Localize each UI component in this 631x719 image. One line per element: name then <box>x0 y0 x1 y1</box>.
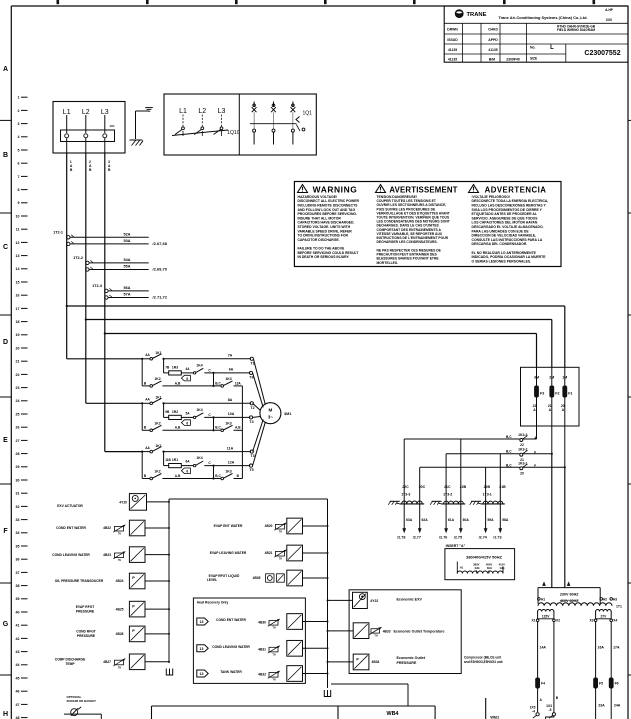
sensor 4B27 comp discharge temp <box>55 654 169 670</box>
motor leads <box>253 359 266 466</box>
svg-text:TANK WATER: TANK WATER <box>220 670 242 674</box>
company name text <box>498 15 587 20</box>
svg-text:1K3: 1K3 <box>225 470 231 474</box>
svg-text:4: 4 <box>18 135 20 139</box>
svg-text:L1: L1 <box>63 109 71 116</box>
starter row phase1 (1K1/1R3/1K4/1K2/1K3) <box>141 351 255 387</box>
svg-text:24: 24 <box>16 399 20 403</box>
svg-text:Economic Outlet: Economic Outlet <box>397 656 426 660</box>
svg-text:32: 32 <box>16 505 20 509</box>
title block grid lines <box>444 23 628 62</box>
svg-text:TH: TH <box>272 655 275 657</box>
svg-text:2: 2 <box>18 109 20 113</box>
svg-text:1K4: 1K4 <box>196 364 202 368</box>
svg-text:L2: L2 <box>198 108 206 115</box>
svg-text:13: 13 <box>200 647 204 651</box>
svg-text:16: 16 <box>16 294 20 298</box>
svg-text:1R1: 1R1 <box>172 458 178 462</box>
fuse F3 <box>534 386 544 398</box>
svg-text:H3: H3 <box>613 597 617 601</box>
title block corner small texts <box>605 8 614 22</box>
svg-text:1K1: 1K1 <box>155 351 161 355</box>
terminal T5 <box>249 464 253 472</box>
svg-text:INSERT "A": INSERT "A" <box>446 544 466 548</box>
svg-text:1X1: 1X1 <box>109 124 115 128</box>
svg-text:COND ENT WATER: COND ENT WATER <box>56 526 86 530</box>
svg-text:F: F <box>3 528 8 535</box>
svg-text:/2.76: /2.76 <box>439 535 447 539</box>
svg-text:TH: TH <box>272 680 275 682</box>
svg-text:4HG: 4HG <box>474 567 479 570</box>
svg-text:Trane Air-Conditioning Systems: Trane Air-Conditioning Systems (China) C… <box>498 15 587 20</box>
svg-text:11B: 11B <box>165 458 171 462</box>
svg-text:M: M <box>268 408 272 413</box>
note tag 6 <box>181 468 190 474</box>
svg-text:1K1: 1K1 <box>155 396 161 400</box>
wire A,B <box>162 381 221 387</box>
CT 1T3-1 <box>470 454 509 540</box>
wire 10A to terminal <box>204 412 250 418</box>
svg-text:PRESSURE: PRESSURE <box>397 661 417 665</box>
svg-text:8: 8 <box>18 188 20 192</box>
1Q10 switch cell <box>172 108 240 136</box>
svg-text:6: 6 <box>186 377 188 381</box>
svg-text:1K4: 1K4 <box>196 408 202 412</box>
terminal T4 <box>249 416 253 424</box>
svg-text:LEVEL: LEVEL <box>207 578 218 582</box>
svg-text:35: 35 <box>16 544 20 548</box>
svg-text:13: 13 <box>200 672 204 676</box>
row letter C <box>3 244 8 251</box>
svg-text:4A: 4A <box>185 367 190 371</box>
fuse lower labels <box>533 404 565 412</box>
junction node <box>141 451 143 479</box>
sensor 4B05 evap rfgt liquid level <box>207 570 328 586</box>
svg-text:57A: 57A <box>124 293 131 297</box>
svg-text:B,C: B,C <box>506 463 512 467</box>
svg-text:EXV ACTUATOR: EXV ACTUATOR <box>57 504 83 508</box>
svg-text:3: 3 <box>18 122 20 126</box>
svg-text:TRANE: TRANE <box>467 12 487 18</box>
svg-text:22: 22 <box>520 443 524 447</box>
resistor 1R3 <box>169 366 194 376</box>
wire phase 2 vertical <box>85 153 87 403</box>
svg-text:34: 34 <box>16 531 20 535</box>
terminal T1 <box>250 357 254 365</box>
svg-text:31: 31 <box>16 492 20 496</box>
svg-text:COND RFGT: COND RFGT <box>76 630 96 634</box>
svg-text:14A: 14A <box>540 646 547 650</box>
svg-text:TH: TH <box>279 532 282 534</box>
warning column 2 body text <box>377 195 450 265</box>
svg-text:26: 26 <box>16 426 20 430</box>
svg-text:115V: 115V <box>542 615 550 619</box>
contact 1K3 <box>221 377 233 387</box>
fuse F5 <box>593 678 603 689</box>
svg-text:TH: TH <box>374 635 377 638</box>
earth ground symbol <box>130 108 153 146</box>
contact 1K4 <box>193 364 203 375</box>
svg-text:ISSUD: ISSUD <box>447 38 458 42</box>
svg-text:A,B: A,B <box>235 426 241 430</box>
svg-text:E: E <box>3 437 8 444</box>
wire phase1 into row1 <box>67 358 143 360</box>
transformer secondary 115V <box>531 609 560 622</box>
svg-text:A,B: A,B <box>175 381 181 385</box>
svg-text:/2.67,68: /2.67,68 <box>153 241 168 246</box>
svg-text:No.: No. <box>530 45 536 49</box>
svg-text:19: 19 <box>16 333 20 337</box>
CT 1T2-1 <box>53 231 168 247</box>
fuse labels 3M 2M 1M <box>534 376 567 380</box>
svg-text:T4: T4 <box>249 420 253 424</box>
svg-text:4B27: 4B27 <box>103 660 111 664</box>
svg-text:30: 30 <box>16 478 20 482</box>
svg-text:3HG: 3HG <box>487 567 492 570</box>
svg-text:20C: 20C <box>419 485 426 489</box>
shield box left bus <box>168 499 170 663</box>
svg-text:CAPACITOR DISCHARGE.: CAPACITOR DISCHARGE. <box>298 238 340 242</box>
svg-text:1K1: 1K1 <box>155 444 161 448</box>
svg-text:25: 25 <box>16 412 20 416</box>
svg-text:F5: F5 <box>599 682 603 686</box>
optional device note <box>67 695 97 703</box>
svg-text:3M: 3M <box>534 376 539 380</box>
contact 1K3 bottom <box>546 704 556 719</box>
svg-text:COND LEAVING WATER: COND LEAVING WATER <box>212 645 250 649</box>
svg-text:13: 13 <box>200 620 204 624</box>
wire from shield bus to WB4 <box>331 684 408 706</box>
svg-text:DRWN: DRWN <box>447 28 458 32</box>
svg-text:4B22: 4B22 <box>103 526 111 530</box>
CT 1T3-3 <box>388 439 428 539</box>
contact 1K5 bottom <box>530 706 540 719</box>
svg-text:1Q10: 1Q10 <box>227 130 240 136</box>
economizer outlet pressure 4B34 <box>328 654 426 670</box>
svg-text:4B33: 4B33 <box>383 629 391 633</box>
svg-text:1T1: 1T1 <box>616 604 622 608</box>
svg-text:TH: TH <box>118 534 121 536</box>
svg-text:9B: 9B <box>165 410 170 414</box>
svg-text:1T3-1: 1T3-1 <box>483 493 492 497</box>
svg-text:1Q1: 1Q1 <box>303 111 313 117</box>
fuse wires inside box <box>537 367 565 467</box>
CT 1T2-2 <box>73 256 168 272</box>
warning label box <box>294 182 561 267</box>
terminal T2 <box>250 402 254 410</box>
svg-text:21B: 21B <box>499 485 506 489</box>
svg-text:F3: F3 <box>540 392 544 396</box>
svg-text:4B24: 4B24 <box>116 579 124 583</box>
svg-text:C23007552: C23007552 <box>584 50 620 57</box>
box1 phase leads <box>65 115 107 153</box>
svg-text:20: 20 <box>16 346 20 350</box>
motor 3M1 <box>260 403 291 424</box>
wire branch 7B <box>164 359 170 373</box>
svg-text:-4: -4 <box>532 709 535 713</box>
svg-text:1M: 1M <box>562 376 567 380</box>
wire A,B <box>162 474 221 480</box>
svg-text:1R2: 1R2 <box>172 410 178 414</box>
svg-text:Compressor (BE,CE unit: Compressor (BE,CE unit <box>464 655 502 659</box>
svg-text:1T3-2: 1T3-2 <box>443 493 452 497</box>
terminal box WB1 <box>486 698 500 719</box>
wire 8A to terminal <box>162 398 251 404</box>
wire phase 3 vertical <box>104 153 106 452</box>
svg-text:6: 6 <box>186 470 188 474</box>
svg-text:/2.77: /2.77 <box>413 535 421 539</box>
sensor 4B23 cond leaving water <box>52 547 169 563</box>
svg-text:22C: 22C <box>402 485 409 489</box>
wire branch 11B <box>164 452 172 466</box>
compressor unit note <box>464 655 504 664</box>
svg-text:62A: 62A <box>422 518 429 522</box>
svg-text:23A: 23A <box>598 703 605 707</box>
svg-text:XXX: XXX <box>606 18 613 22</box>
svg-text:3M1: 3M1 <box>284 412 291 416</box>
svg-text:460V 60HZ: 460V 60HZ <box>560 599 579 603</box>
svg-text:4B20: 4B20 <box>265 524 273 528</box>
svg-text:415V: 415V <box>499 563 505 567</box>
svg-text:22B: 22B <box>460 485 467 489</box>
svg-text:27: 27 <box>16 439 20 443</box>
svg-text:/2.69,70: /2.69,70 <box>153 267 168 272</box>
svg-text:F4: F4 <box>541 682 545 686</box>
wire branch 9B <box>164 403 170 417</box>
delta bus vertical 13A <box>241 386 243 479</box>
contact 1K3-3 <box>404 433 537 447</box>
fuse F6 <box>609 678 619 689</box>
border frame left margin line <box>10 6 12 719</box>
wire 13A to delta bus <box>234 381 243 386</box>
svg-text:H1: H1 <box>460 565 464 569</box>
sensor 4B22 cond ent water <box>56 520 169 536</box>
heat recovery only box <box>193 598 305 683</box>
ADVERTENCIA header <box>485 186 547 195</box>
svg-text:H1: H1 <box>541 597 545 601</box>
svg-text:CHKD: CHKD <box>488 28 498 32</box>
svg-text:4Y20: 4Y20 <box>119 501 127 505</box>
svg-text:EVAP LEAVING WATER: EVAP LEAVING WATER <box>210 551 247 555</box>
svg-text:COND LEAVING WATER: COND LEAVING WATER <box>52 553 90 557</box>
svg-text:24A: 24A <box>614 703 621 707</box>
svg-text:16A: 16A <box>598 646 605 650</box>
svg-text:B: B <box>3 152 8 159</box>
svg-text:P: P <box>132 604 135 608</box>
svg-text:4B05: 4B05 <box>253 576 261 580</box>
svg-text:B,C: B,C <box>215 474 221 478</box>
svg-text:C: C <box>3 244 8 251</box>
secondary wire X3 <box>596 622 605 719</box>
optional device switch <box>64 707 101 719</box>
contact 1K2 <box>142 470 161 480</box>
shield box right bus <box>327 499 329 688</box>
svg-text:43: 43 <box>16 650 20 654</box>
1Q1 breaker cell <box>250 102 312 145</box>
warning column 3 body text <box>472 195 549 264</box>
svg-text:EVAP RFGT LIQUID: EVAP RFGT LIQUID <box>209 574 240 578</box>
svg-text:T3: T3 <box>250 454 254 458</box>
wire phase 1 vertical <box>66 153 68 359</box>
svg-text:X2: X2 <box>556 619 560 623</box>
CT 1T3-2 <box>430 439 469 539</box>
svg-text:230V 60HZ: 230V 60HZ <box>560 593 579 597</box>
svg-text:T5: T5 <box>249 468 253 472</box>
svg-text:1K3: 1K3 <box>225 377 231 381</box>
junction dot F2 <box>551 453 553 455</box>
wires from fuses to transformer <box>552 454 565 588</box>
svg-text:52A: 52A <box>124 233 131 237</box>
svg-text:28: 28 <box>16 452 20 456</box>
resistor 1R1 <box>169 458 194 468</box>
svg-text:58A: 58A <box>502 518 509 522</box>
svg-text:54A: 54A <box>124 258 131 262</box>
svg-text:10A: 10A <box>228 412 235 416</box>
svg-text:EVAP ENT WATER: EVAP ENT WATER <box>214 524 243 528</box>
WARNING header <box>313 185 358 195</box>
terminal T3 <box>250 450 254 458</box>
row letter B <box>3 152 8 159</box>
svg-text:A,B: A,B <box>175 426 181 430</box>
row letter A <box>3 66 8 73</box>
svg-text:1T2-2: 1T2-2 <box>73 256 83 260</box>
svg-text:APPD: APPD <box>488 38 498 42</box>
svg-text:4B31: 4B31 <box>258 647 266 651</box>
svg-text:L2: L2 <box>82 109 90 116</box>
svg-text:4B26: 4B26 <box>116 632 124 636</box>
svg-text:17A: 17A <box>613 646 620 650</box>
svg-text:1: 1 <box>18 96 20 100</box>
svg-text:3~: 3~ <box>268 415 273 420</box>
fuse F2 <box>549 386 559 398</box>
transformer 1T1 primary <box>538 581 622 608</box>
svg-text:9: 9 <box>18 201 20 205</box>
svg-text:4B30: 4B30 <box>258 621 266 625</box>
svg-text:1K3: 1K3 <box>225 421 231 425</box>
svg-text:14: 14 <box>16 267 20 271</box>
svg-text:20: 20 <box>520 472 524 476</box>
svg-text:WB1: WB1 <box>490 715 500 719</box>
svg-text:B,C: B,C <box>506 435 512 439</box>
svg-text:17: 17 <box>16 307 20 311</box>
wire A,B <box>162 426 221 432</box>
svg-text:-5: -5 <box>549 708 552 712</box>
secondary wire X2 <box>553 622 555 713</box>
bus phase1 to fuse F1 <box>66 305 565 367</box>
contact 1K2 <box>142 377 161 387</box>
svg-text:55A: 55A <box>124 265 131 269</box>
svg-text:AA: AA <box>145 398 150 402</box>
svg-text:4B21: 4B21 <box>265 551 273 555</box>
row letter H <box>3 711 8 718</box>
svg-text:41135: 41135 <box>448 48 457 52</box>
svg-text:42: 42 <box>16 637 20 641</box>
row boundary ticks left and right <box>0 120 631 675</box>
svg-text:4B34: 4B34 <box>372 660 380 664</box>
svg-text:COMP DISCHARGE: COMP DISCHARGE <box>55 658 86 662</box>
svg-text:27V: 27V <box>600 615 607 619</box>
contact 1K1 <box>142 396 162 405</box>
svg-text:B,C: B,C <box>215 381 221 385</box>
svg-text:/2.75: /2.75 <box>454 535 462 539</box>
wire B to delta bus <box>234 474 243 479</box>
svg-text:4B25: 4B25 <box>116 607 124 611</box>
svg-text:MORTELLES.: MORTELLES. <box>377 261 399 265</box>
svg-text:4B32: 4B32 <box>258 673 266 677</box>
svg-text:38: 38 <box>16 584 20 588</box>
svg-text:20B: 20B <box>484 485 491 489</box>
svg-text:63A: 63A <box>406 518 413 522</box>
svg-text:O SERIAS LESIONES PERSONALES.: O SERIAS LESIONES PERSONALES. <box>472 259 532 263</box>
row letter F <box>3 528 8 535</box>
svg-text:/2.74: /2.74 <box>479 535 488 539</box>
svg-text:1K2: 1K2 <box>154 421 160 425</box>
svg-text:7A: 7A <box>228 354 233 358</box>
svg-text:SIZE: SIZE <box>530 57 537 61</box>
svg-text:13A: 13A <box>235 381 242 385</box>
1X1 inner terminal strip <box>61 124 115 142</box>
svg-text:1R3: 1R3 <box>172 366 178 370</box>
svg-text:41135: 41135 <box>448 58 457 62</box>
svg-text:/2.71,72: /2.71,72 <box>153 295 168 300</box>
border frame top line <box>11 5 628 7</box>
svg-text:41: 41 <box>16 624 20 628</box>
svg-text:P: P <box>132 576 135 580</box>
bottom labels A B 23A 24A <box>540 696 621 708</box>
heat recovery sensor 4B31 <box>197 640 328 656</box>
junction dot F1 <box>564 466 566 468</box>
svg-text:TH: TH <box>272 628 275 630</box>
svg-text:5: 5 <box>18 148 20 152</box>
svg-text:47: 47 <box>16 703 20 707</box>
drawing number C23007552 <box>584 50 620 57</box>
terminal T6 <box>249 371 253 379</box>
svg-text:P: P <box>132 629 135 633</box>
svg-text:61A: 61A <box>448 518 455 522</box>
L1 L2 L3 labels box1 <box>63 109 109 116</box>
wire C junction drop <box>213 417 215 430</box>
svg-text:EVAP RFGT: EVAP RFGT <box>76 605 95 609</box>
svg-text:FIELD WIRING DIAGRAM: FIELD WIRING DIAGRAM <box>557 28 595 32</box>
svg-text:8A: 8A <box>228 398 233 402</box>
svg-text:Economic EXV: Economic EXV <box>397 598 423 602</box>
wire 11A to terminal <box>162 446 251 452</box>
svg-text:L1: L1 <box>179 108 187 115</box>
contact 1K3 <box>221 421 233 431</box>
top edge cut-off column digit marks <box>57 0 596 4</box>
svg-text:1K2: 1K2 <box>154 470 160 474</box>
Trane logo <box>455 9 487 18</box>
svg-text:TEMP: TEMP <box>65 662 75 666</box>
svg-text:TH: TH <box>118 667 121 669</box>
svg-text:21C: 21C <box>444 485 451 489</box>
svg-text:SODIUM OR BASKET: SODIUM OR BASKET <box>67 699 97 703</box>
warning triangle 3 <box>469 185 479 193</box>
svg-text:1T3-3: 1T3-3 <box>401 493 410 497</box>
sensor 4B26 cond rfgt pressure <box>76 626 169 642</box>
bus phase3 to fuse F3 <box>104 332 537 367</box>
svg-text:12: 12 <box>16 241 20 245</box>
svg-text:10: 10 <box>16 214 20 218</box>
svg-text:7B: 7B <box>165 365 170 369</box>
svg-text:1K4: 1K4 <box>196 456 202 460</box>
svg-text:59A: 59A <box>487 518 494 522</box>
svg-text:6A: 6A <box>229 368 234 372</box>
title block outline <box>444 6 628 62</box>
svg-text:7: 7 <box>18 175 20 179</box>
svg-text:P: P <box>356 657 359 661</box>
sensor 4B24 oil pressure transducer <box>55 573 169 589</box>
